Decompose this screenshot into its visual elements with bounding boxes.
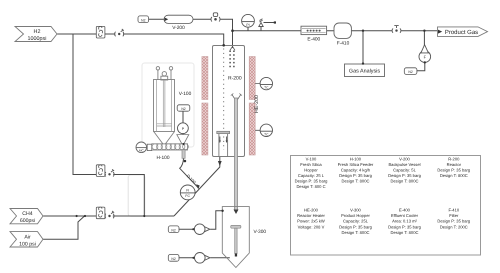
svg-text:Capacity: 25L: Capacity: 25L <box>343 219 369 224</box>
svg-text:Design P: 35 barg: Design P: 35 barg <box>339 173 372 178</box>
svg-text:Air: Air <box>24 234 31 240</box>
svg-text:E-400: E-400 <box>307 36 320 42</box>
svg-text:Design P: 35 barg: Design P: 35 barg <box>437 167 470 172</box>
svg-text:H-100: H-100 <box>350 156 362 161</box>
svg-text:N2: N2 <box>181 107 185 111</box>
svg-text:H2: H2 <box>34 29 41 35</box>
svg-text:Design T: 800 C: Design T: 800 C <box>296 184 325 189</box>
svg-text:Product Hopper: Product Hopper <box>341 213 370 218</box>
svg-text:TC: TC <box>264 86 269 90</box>
svg-text:V-100: V-100 <box>179 91 192 97</box>
svg-text:V-300: V-300 <box>350 208 361 213</box>
svg-text:Design P: 35 barg: Design P: 35 barg <box>295 179 328 184</box>
svg-text:Effluent Cooler: Effluent Cooler <box>391 213 419 218</box>
svg-text:PI: PI <box>246 23 249 27</box>
svg-text:Design P: 35 barg: Design P: 35 barg <box>388 173 421 178</box>
svg-text:F-410: F-410 <box>337 40 350 46</box>
svg-text:600psi: 600psi <box>20 218 35 224</box>
svg-text:Design P: 35 barg: Design P: 35 barg <box>339 224 372 229</box>
svg-text:N2: N2 <box>171 257 175 261</box>
svg-text:Voltage: 208 V: Voltage: 208 V <box>298 224 325 229</box>
svg-text:HE-200: HE-200 <box>304 208 319 213</box>
svg-text:Design T: 800C: Design T: 800C <box>391 230 419 235</box>
svg-text:Hopper: Hopper <box>304 167 318 172</box>
svg-text:Design T: 800C: Design T: 800C <box>391 179 419 184</box>
svg-text:N2: N2 <box>141 18 145 22</box>
svg-text:Filter: Filter <box>449 213 459 218</box>
svg-text:Reactor: Reactor <box>447 162 462 167</box>
svg-text:Design P: 35 barg: Design P: 35 barg <box>388 224 421 229</box>
svg-text:Design T: 800C: Design T: 800C <box>342 179 370 184</box>
svg-text:E-400: E-400 <box>399 208 411 213</box>
svg-text:Fresh Silica Feeder: Fresh Silica Feeder <box>338 162 374 167</box>
svg-text:Design T: 800C: Design T: 800C <box>440 173 468 178</box>
svg-text:R-200: R-200 <box>448 156 460 161</box>
svg-text:R-200: R-200 <box>228 75 242 81</box>
svg-text:N2: N2 <box>408 70 412 74</box>
svg-text:FI: FI <box>186 189 189 193</box>
svg-text:H-100: H-100 <box>156 155 169 161</box>
svg-text:Capacity: 4 kg/h: Capacity: 4 kg/h <box>341 167 371 172</box>
svg-text:V-200: V-200 <box>172 25 185 31</box>
svg-text:D-100: D-100 <box>186 173 198 185</box>
svg-text:FC: FC <box>185 194 190 198</box>
svg-text:Power: 2x5 kW: Power: 2x5 kW <box>297 219 325 224</box>
svg-text:Design T: 800C: Design T: 800C <box>342 230 370 235</box>
svg-text:Capacity: 25 L: Capacity: 25 L <box>298 173 325 178</box>
svg-text:1000psi: 1000psi <box>28 36 47 42</box>
svg-text:Reactor Heater: Reactor Heater <box>297 213 325 218</box>
svg-text:CH4: CH4 <box>22 211 32 217</box>
svg-text:100 psi: 100 psi <box>19 242 36 248</box>
svg-text:HE-200: HE-200 <box>254 95 260 113</box>
svg-text:Gas Analysis: Gas Analysis <box>349 69 380 75</box>
svg-text:Area: 0.13 m²: Area: 0.13 m² <box>392 219 417 224</box>
svg-text:F-410: F-410 <box>448 208 459 213</box>
svg-text:Backpulse Vessel: Backpulse Vessel <box>388 162 420 167</box>
svg-text:V-300: V-300 <box>254 229 267 235</box>
svg-text:Fresh Silica: Fresh Silica <box>300 162 322 167</box>
svg-text:Design T: 200C: Design T: 200C <box>440 224 468 229</box>
svg-text:MC: MC <box>139 148 144 152</box>
svg-text:N2: N2 <box>171 228 175 232</box>
svg-text:Capacity: 5L: Capacity: 5L <box>393 167 416 172</box>
svg-text:Product Gas: Product Gas <box>445 29 478 36</box>
svg-text:Design P: 35 barg: Design P: 35 barg <box>437 219 470 224</box>
svg-text:V-100: V-100 <box>306 156 317 161</box>
svg-text:V-200: V-200 <box>399 156 410 161</box>
svg-text:TC: TC <box>264 132 269 136</box>
